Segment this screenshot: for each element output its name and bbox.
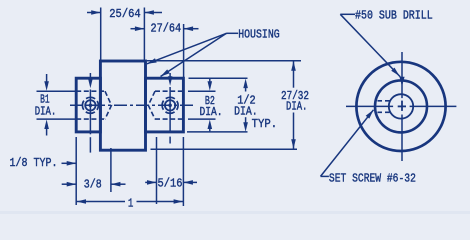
- svg-text:HOUSING: HOUSING: [238, 27, 280, 41]
- svg-text:DIA.: DIA.: [35, 104, 57, 118]
- svg-text:1: 1: [128, 197, 133, 211]
- svg-text:TYP.: TYP.: [252, 117, 278, 131]
- svg-text:25/64: 25/64: [109, 7, 140, 21]
- svg-text:3/8: 3/8: [84, 177, 102, 191]
- svg-text:#50 SUB DRILL: #50 SUB DRILL: [355, 9, 433, 23]
- svg-text:SET SCREW #6-32: SET SCREW #6-32: [329, 172, 416, 186]
- svg-text:1/8 TYP.: 1/8 TYP.: [10, 156, 58, 170]
- svg-text:DIA.: DIA.: [200, 105, 223, 119]
- svg-text:5/16: 5/16: [158, 177, 183, 191]
- svg-text:DIA.: DIA.: [286, 99, 307, 113]
- svg-text:27/64: 27/64: [151, 22, 182, 36]
